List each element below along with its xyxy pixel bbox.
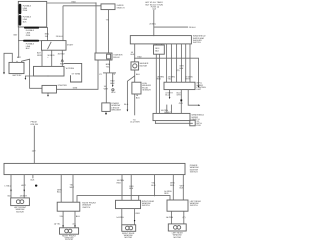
label fluid sensor bbox=[142, 82, 151, 92]
wire switch3 feed B bbox=[129, 175, 134, 201]
switch S1 top box bbox=[101, 4, 115, 10]
node relay bottom bbox=[47, 75, 48, 76]
wire solenoid output bbox=[106, 60, 111, 73]
label FL4 bbox=[26, 42, 35, 50]
svg-text:WHT: WHT bbox=[70, 186, 75, 189]
label ignition switch bbox=[45, 33, 74, 47]
connector to governor bbox=[190, 120, 203, 127]
label FL3 bbox=[26, 29, 35, 37]
wire motor1 feed B bbox=[20, 175, 28, 198]
node chain B bbox=[154, 195, 155, 196]
fuse panel box bbox=[18, 1, 46, 27]
wire motor1 feed A bbox=[5, 175, 12, 198]
svg-text:BLK: BLK bbox=[31, 179, 35, 182]
svg-text:14 GRN: 14 GRN bbox=[116, 216, 124, 219]
svg-text:GOV: GOV bbox=[196, 124, 201, 127]
right rear window switch bbox=[116, 200, 141, 208]
label FL2 bbox=[23, 16, 32, 24]
svg-text:20 BLU: 20 BLU bbox=[56, 35, 63, 38]
svg-text:BLK: BLK bbox=[180, 187, 184, 190]
fusible link FL1 bbox=[19, 4, 22, 14]
wire FL4 to ignition switch bbox=[39, 40, 41, 42]
svg-text:BREAKER: BREAKER bbox=[111, 109, 121, 112]
wire unit input 2 bbox=[170, 44, 172, 82]
wire accessory branch bbox=[63, 5, 101, 7]
svg-text:GRN: GRN bbox=[23, 9, 28, 12]
wire wiper switch ground link bbox=[155, 121, 193, 124]
wire unit input 5 bbox=[186, 44, 190, 82]
svg-text:RED: RED bbox=[72, 1, 77, 4]
fusible link FL2 bbox=[19, 15, 22, 26]
svg-text:SWITCH: SWITCH bbox=[117, 6, 125, 9]
wire 30 RED output bbox=[47, 50, 55, 66]
label HOT AT ALL TIMES bbox=[145, 1, 163, 10]
svg-text:MOTOR: MOTOR bbox=[16, 210, 24, 213]
svg-text:RELAY: RELAY bbox=[113, 56, 120, 59]
wire motor4 lead A bbox=[166, 211, 174, 224]
svg-text:BLK: BLK bbox=[131, 53, 135, 56]
label left rear switch bbox=[190, 200, 202, 207]
label right rear switch bbox=[142, 200, 155, 207]
wire unit input 4 bbox=[180, 44, 182, 82]
wire ground daisy chain bbox=[77, 196, 170, 203]
svg-text:BLU: BLU bbox=[111, 91, 115, 94]
wire start output with connector bbox=[58, 50, 66, 66]
wire switch3 feed A bbox=[117, 175, 125, 201]
svg-text:WHT: WHT bbox=[21, 184, 26, 187]
svg-text:BLK: BLK bbox=[23, 20, 27, 23]
wire to washer motor bbox=[131, 44, 135, 62]
wire motor3 lead A bbox=[116, 209, 124, 225]
svg-text:RED: RED bbox=[136, 212, 141, 215]
wire battery ground leg bbox=[4, 53, 12, 72]
svg-text:WHT: WHT bbox=[104, 88, 109, 91]
label feed from ignition bbox=[31, 121, 38, 126]
wire switch2 feed B bbox=[70, 175, 75, 203]
svg-text:RED: RED bbox=[137, 56, 142, 59]
label 18 GRN WHT bbox=[185, 75, 193, 80]
wire bus to chain bbox=[151, 175, 156, 196]
svg-text:START: START bbox=[67, 43, 74, 46]
left rear window switch bbox=[167, 200, 188, 211]
wire fuse 20 BLU drop bbox=[149, 10, 156, 36]
label solenoid bbox=[113, 54, 123, 59]
wire long left L2 bbox=[160, 44, 162, 114]
wire 18 BLU drop bbox=[56, 6, 63, 41]
svg-text:BLK: BLK bbox=[26, 47, 30, 50]
wire RED feed bbox=[47, 1, 96, 4]
wire 20 BLU spur bbox=[154, 26, 196, 29]
connector eyelet bbox=[111, 89, 115, 94]
label control unit bbox=[196, 82, 207, 92]
wiper washer switch box bbox=[130, 36, 191, 44]
svg-text:MOTOR: MOTOR bbox=[173, 236, 181, 239]
label BAT left bbox=[14, 33, 19, 36]
right front window motor bbox=[60, 228, 79, 234]
washer motor M bbox=[131, 62, 139, 70]
svg-text:36-A: 36-A bbox=[124, 103, 129, 106]
svg-text:BLU: BLU bbox=[165, 94, 169, 97]
svg-text:BLK: BLK bbox=[136, 73, 140, 76]
wire washer motor ground bbox=[135, 70, 141, 82]
wire BAT output bbox=[37, 50, 42, 66]
washer fluid sensor box bbox=[132, 82, 141, 94]
node chain A bbox=[138, 195, 139, 196]
right rear window motor bbox=[122, 225, 136, 232]
wire stub BLK bbox=[31, 175, 35, 182]
svg-text:14 GRN: 14 GRN bbox=[166, 216, 174, 219]
svg-text:BLU: BLU bbox=[57, 191, 61, 194]
right front window switch bbox=[57, 202, 80, 211]
svg-text:LT BLU: LT BLU bbox=[5, 184, 12, 187]
svg-text:RED: RED bbox=[117, 181, 122, 184]
label master switch bbox=[190, 164, 199, 174]
wire motor2 lead A bbox=[54, 211, 64, 228]
svg-text:SWITCH: SWITCH bbox=[190, 171, 198, 174]
wire wiper switch feed 1 bbox=[166, 105, 168, 114]
svg-text:14 YEL: 14 YEL bbox=[54, 222, 61, 225]
svg-text:NO: NO bbox=[8, 194, 11, 197]
svg-text:W TERM: W TERM bbox=[66, 67, 74, 70]
label 18 BRN RED bbox=[157, 75, 165, 80]
svg-text:IGN SW: IGN SW bbox=[31, 123, 38, 126]
wire starter to solenoid bbox=[57, 60, 99, 90]
label GRY BLK bbox=[180, 65, 185, 70]
svg-text:WHT: WHT bbox=[185, 78, 190, 81]
label 18 GRN YEL bbox=[168, 75, 176, 80]
wire relay ground bbox=[25, 76, 34, 80]
wire to breaker bbox=[104, 73, 109, 103]
svg-text:GRD: GRD bbox=[37, 54, 42, 57]
svg-text:BLK: BLK bbox=[155, 49, 159, 52]
wire long left L1 bbox=[155, 44, 157, 114]
svg-text:RED: RED bbox=[170, 184, 175, 187]
svg-text:GRN: GRN bbox=[26, 34, 31, 37]
label circuit breaker bbox=[111, 102, 121, 112]
label FL1 bbox=[23, 4, 32, 12]
label washer motor bbox=[140, 62, 149, 67]
wire RED to control unit bbox=[135, 56, 200, 88]
wire feed to master switch bbox=[32, 126, 37, 164]
left rear window motor bbox=[168, 224, 186, 231]
label wiper washer switch bbox=[193, 35, 206, 45]
circuit breaker box bbox=[102, 103, 110, 112]
svg-text:CLUSTER: CLUSTER bbox=[130, 121, 140, 124]
label left front motor bbox=[14, 206, 27, 213]
svg-text:GRY: GRY bbox=[177, 94, 182, 97]
wire battery feed drop bbox=[95, 3, 97, 53]
wire motor2 lead B bbox=[73, 211, 81, 228]
interval wiper control unit bbox=[164, 82, 195, 89]
svg-text:BLU: BLU bbox=[76, 215, 80, 218]
svg-text:MOTOR: MOTOR bbox=[124, 236, 132, 239]
svg-text:BLK: BLK bbox=[129, 187, 133, 190]
svg-text:GRY: GRY bbox=[179, 102, 184, 105]
svg-text:BATTERY: BATTERY bbox=[13, 74, 23, 77]
svg-text:20 BLU: 20 BLU bbox=[149, 23, 156, 26]
svg-text:BLK: BLK bbox=[180, 67, 184, 70]
ignition switch box bbox=[42, 41, 67, 51]
left front window motor bbox=[11, 198, 30, 206]
label S1 bbox=[117, 4, 125, 9]
breaker output stub bbox=[105, 111, 106, 114]
wire sensor to cluster bbox=[130, 94, 140, 124]
svg-text:MOTOR: MOTOR bbox=[140, 64, 148, 67]
svg-text:RED: RED bbox=[157, 78, 162, 81]
connector blob bbox=[35, 185, 37, 187]
svg-text:18 WHT: 18 WHT bbox=[20, 194, 28, 197]
svg-text:(C): (C) bbox=[183, 216, 186, 219]
power window master switch bus bbox=[4, 163, 185, 174]
label BAT terminal bbox=[17, 56, 22, 59]
svg-text:30 RED: 30 RED bbox=[58, 52, 66, 55]
label BATTERY bbox=[13, 74, 23, 77]
battery B1 bbox=[9, 62, 24, 73]
wire battery to starter cable bbox=[22, 59, 42, 88]
battery terminals bbox=[12, 61, 21, 63]
wire panel left leg bbox=[18, 27, 23, 58]
wire S1 output bbox=[106, 10, 109, 53]
resistor block bbox=[154, 45, 165, 54]
wire unit input 3 bbox=[176, 44, 178, 82]
svg-text:GRN: GRN bbox=[73, 87, 78, 90]
svg-text:SWITCH: SWITCH bbox=[193, 41, 201, 44]
node J1 bbox=[95, 2, 96, 3]
svg-text:UNIT: UNIT bbox=[196, 88, 201, 91]
starter box bbox=[42, 84, 67, 93]
svg-text:SWITCH: SWITCH bbox=[82, 206, 90, 209]
fusible link FL4 bbox=[23, 40, 39, 42]
svg-text:(C): (C) bbox=[73, 222, 76, 225]
label wiper switch lower bbox=[192, 114, 205, 121]
svg-text:20 BLU: 20 BLU bbox=[189, 26, 196, 29]
svg-text:PLM: PLM bbox=[60, 62, 64, 65]
starter relay box bbox=[34, 66, 65, 76]
wire unit output 2 bbox=[177, 90, 184, 114]
label right front switch bbox=[82, 201, 96, 208]
label 14 GRN RED chain bbox=[164, 190, 172, 195]
label left rear motor bbox=[172, 231, 184, 238]
svg-text:SW: SW bbox=[45, 35, 48, 38]
fusible link FL3 bbox=[24, 27, 39, 29]
starter ground bbox=[47, 92, 49, 96]
wire FL3 to ignition switch bbox=[39, 28, 47, 41]
wiper switch lower box bbox=[153, 113, 190, 120]
wire ground branch 36-A bbox=[124, 76, 135, 112]
node washer feed bbox=[134, 58, 135, 59]
wire stub with connector bbox=[110, 73, 115, 87]
svg-text:SENSOR: SENSOR bbox=[142, 89, 151, 92]
wire unit output 1 bbox=[165, 90, 173, 99]
svg-text:BLU: BLU bbox=[110, 82, 114, 85]
connector row C200 bbox=[99, 73, 116, 76]
wire unit output 3 bbox=[188, 90, 200, 106]
relay terminal loop bbox=[64, 63, 82, 82]
solenoid relay box bbox=[95, 53, 112, 60]
ground arrow battery bbox=[3, 72, 5, 74]
wire switch4 feed B bbox=[180, 175, 185, 200]
ignition switch arm bbox=[48, 42, 52, 49]
svg-text:14 Y: 14 Y bbox=[32, 149, 37, 152]
svg-text:STARTER: STARTER bbox=[58, 84, 68, 87]
svg-text:RED: RED bbox=[164, 192, 169, 195]
svg-text:ST TERM: ST TERM bbox=[72, 72, 81, 75]
wire chain drop switch3 bbox=[138, 196, 140, 201]
svg-text:BLU: BLU bbox=[151, 184, 155, 187]
svg-text:SWITCH: SWITCH bbox=[190, 204, 198, 207]
label right rear motor bbox=[122, 232, 135, 239]
wire motor4 lead B bbox=[183, 211, 186, 224]
label R bbox=[177, 69, 180, 72]
wire unit input 1 bbox=[166, 44, 168, 82]
svg-text:SWITCH: SWITCH bbox=[142, 204, 150, 207]
wire motor3 lead B bbox=[134, 209, 141, 225]
wire switch2 feed A bbox=[57, 175, 62, 203]
wire switch4 feed A bbox=[170, 175, 175, 200]
wire wiper switch feed 2 bbox=[161, 105, 172, 114]
svg-text:BLK: BLK bbox=[136, 96, 140, 99]
label right front motor bbox=[62, 234, 76, 240]
